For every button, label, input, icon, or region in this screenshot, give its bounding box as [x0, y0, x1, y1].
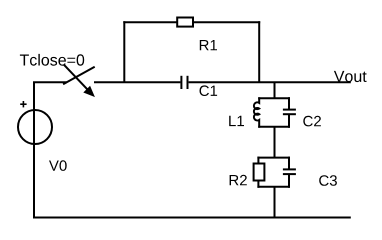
label R2 — [230, 175, 247, 186]
C3 top plate — [283, 168, 296, 170]
label R1 — [200, 40, 217, 50]
resistor R1 (box) — [177, 18, 193, 27]
label C3 — [319, 175, 337, 186]
wire: R2/C3 top bar — [257, 157, 290, 159]
label Vout — [334, 71, 367, 82]
wire: stub from main wire down to L1/C2 bar — [274, 82, 276, 98]
wire: stub between L1/C2 and R2/C3 — [274, 127, 276, 158]
wire: L1/C2 top bar — [258, 97, 290, 99]
label Tclose=0 — [20, 54, 84, 66]
C3 bottom plate — [283, 173, 296, 175]
label C2 — [303, 116, 321, 127]
wire: main horizontal from C1 to Vout end — [189, 81, 351, 83]
capacitor C3 (right branch) — [288, 157, 290, 170]
capacitor C1 right plate — [187, 76, 189, 89]
wire: main horizontal from switch to C1 — [94, 81, 180, 83]
capacitor C2 (right branch) — [288, 97, 290, 109]
label L1 — [229, 116, 244, 126]
wire: feedback loop left vertical — [123, 21, 125, 83]
label V0 — [49, 160, 67, 171]
wire: R2/C3 bottom bar — [257, 186, 290, 188]
voltage source V0 circle — [18, 110, 52, 144]
wire: feedback loop right vertical — [258, 21, 260, 83]
wire: feedback loop top horizontal — [123, 21, 260, 23]
switch arrowhead — [84, 87, 94, 97]
switch Tclose arm — [63, 67, 95, 85]
switch close arrow line — [64, 65, 91, 93]
C3 bottom lead — [288, 174, 290, 188]
resistor R2 (left branch, box) — [257, 157, 259, 164]
C2 bottom plate — [283, 113, 296, 115]
wire: stub from R2/C3 down to bottom rail — [274, 187, 276, 218]
wire: L1/C2 bottom bar — [258, 126, 290, 128]
inductor L1 (left branch with 3 arcs) — [254, 97, 259, 128]
label C1 — [200, 85, 218, 96]
C2 top plate — [283, 109, 296, 111]
capacitor C1 left plate — [180, 76, 182, 89]
V0 plus sign — [20, 103, 26, 105]
wire: bottom rail — [33, 217, 351, 219]
wire: V0 left branch vertical + step to switch — [34, 82, 67, 217]
C2 bottom lead — [288, 114, 290, 128]
